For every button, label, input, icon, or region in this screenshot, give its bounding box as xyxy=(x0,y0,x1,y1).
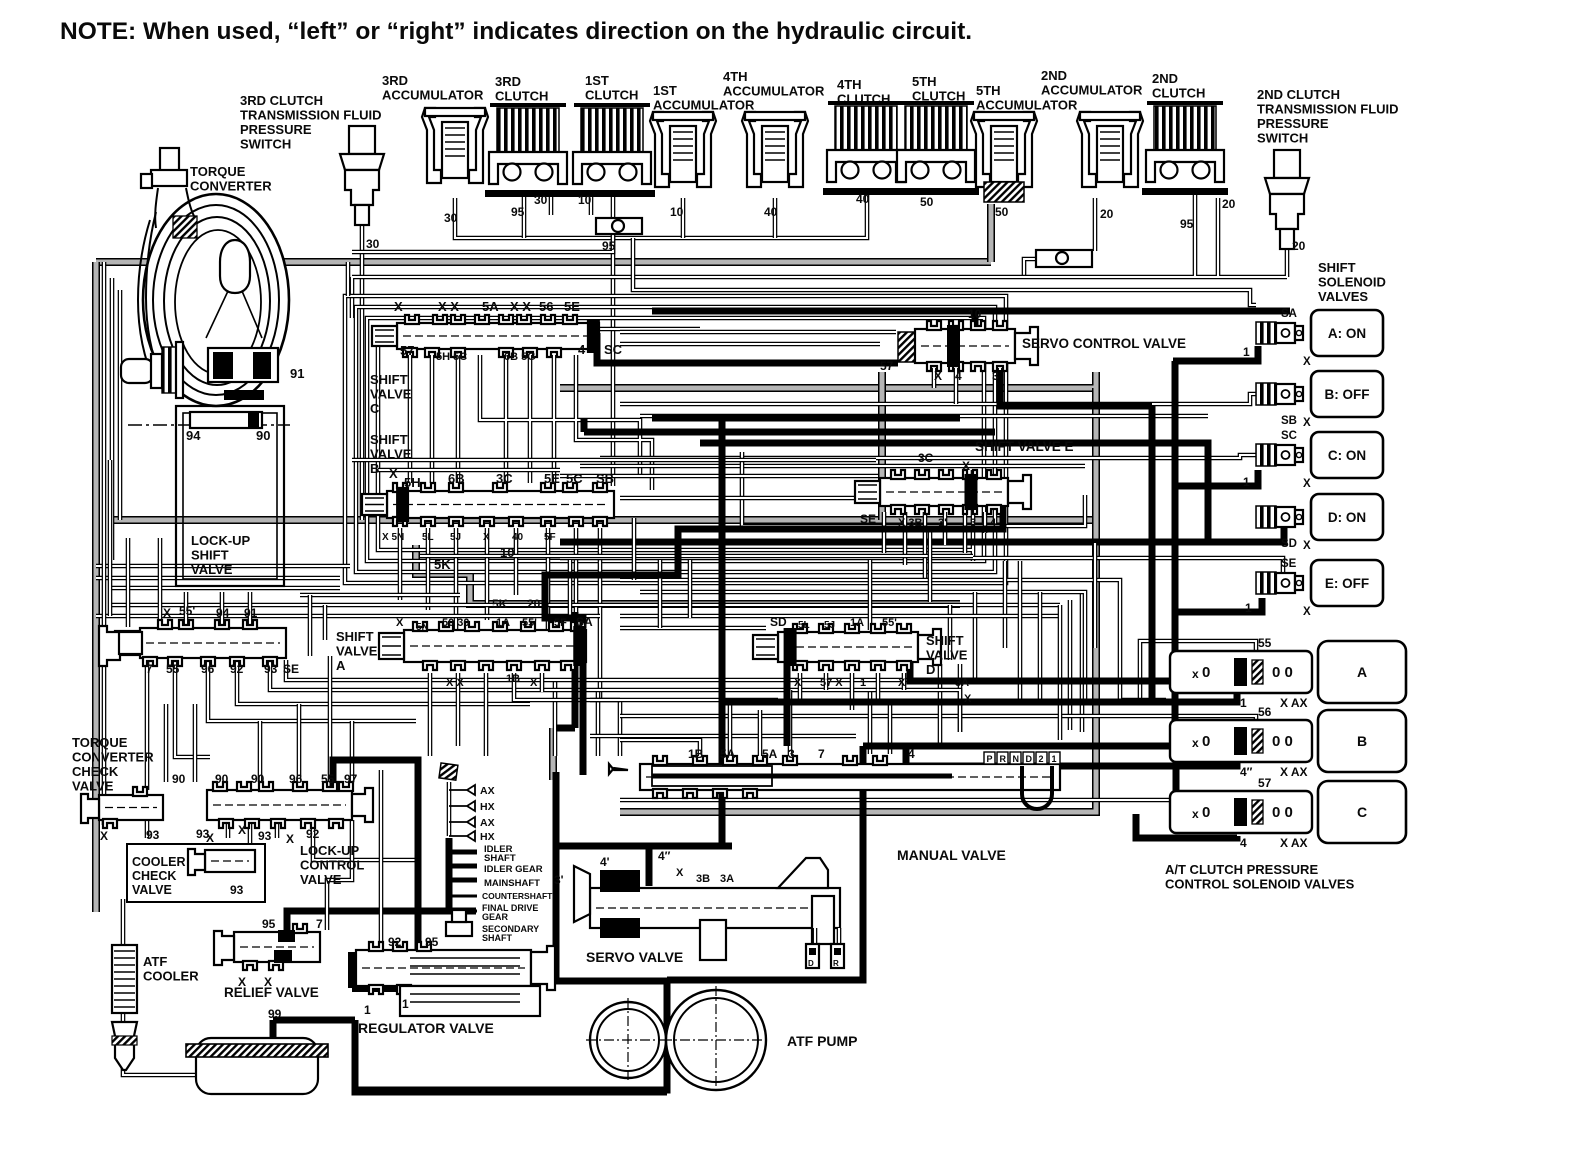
svg-text:95: 95 xyxy=(425,935,439,949)
wire SE thin line xyxy=(560,558,1283,572)
svg-text:3: 3 xyxy=(970,517,976,529)
svg-text:TRANSMISSION FLUID: TRANSMISSION FLUID xyxy=(240,108,382,123)
svg-text:SHIFT: SHIFT xyxy=(370,432,408,447)
svg-text:1A: 1A xyxy=(850,617,864,629)
wire atf cooler to strainer xyxy=(123,1012,196,1075)
svg-text:55': 55' xyxy=(522,617,537,629)
wire 30 from 3rd switch xyxy=(360,208,365,520)
3rd accumulator xyxy=(422,108,488,183)
svg-text:X: X xyxy=(1303,606,1311,618)
svg-text:AX: AX xyxy=(480,785,495,797)
wire loop rect mid xyxy=(356,307,995,572)
2nd clutch xyxy=(1142,103,1228,195)
wire heavy shafts vertical xyxy=(446,838,453,911)
wire regulator thin feed xyxy=(379,770,384,950)
manual valve xyxy=(609,677,1060,863)
svg-text:X: X xyxy=(286,832,294,846)
svg-text:SWITCH: SWITCH xyxy=(240,137,291,152)
svg-text:MAINSHAFT: MAINSHAFT xyxy=(484,878,540,889)
svg-text:94: 94 xyxy=(216,606,230,620)
svg-text:TORQUE: TORQUE xyxy=(72,735,128,750)
svg-text:5A: 5A xyxy=(482,299,499,314)
svg-text:HX: HX xyxy=(480,801,495,813)
svg-text:ACCUMULATOR: ACCUMULATOR xyxy=(653,98,755,113)
svg-text:AX: AX xyxy=(480,817,495,829)
wire heavy SA drop xyxy=(580,650,587,775)
wire lock-up control bottom xyxy=(228,820,420,860)
wire 10 from 1st accumulator xyxy=(681,198,686,238)
wire heavy 99 drop xyxy=(270,1020,277,1040)
svg-text:5K: 5K xyxy=(434,557,451,572)
wire loop rect innermost xyxy=(378,329,973,561)
wire heavy valve E land drop xyxy=(545,488,1003,628)
wire heavy regulator feed L xyxy=(333,760,418,952)
svg-text:1: 1 xyxy=(1052,754,1057,764)
svg-text:3A: 3A xyxy=(720,873,734,885)
svg-text:3C: 3C xyxy=(496,471,513,486)
svg-text:VALVE: VALVE xyxy=(191,562,233,577)
wire mesh h1 xyxy=(620,394,1256,404)
svg-text:20: 20 xyxy=(527,597,541,611)
svg-text:90: 90 xyxy=(256,428,270,443)
A/T clutch pressure control solenoid B xyxy=(1170,705,1406,779)
svg-text:CLUTCH: CLUTCH xyxy=(1152,86,1205,101)
svg-text:2: 2 xyxy=(1039,754,1044,764)
svg-text:X: X xyxy=(389,466,398,481)
svg-text:B: B xyxy=(370,461,379,476)
wire sol A thin xyxy=(633,238,1256,305)
wire heavy y432 xyxy=(584,418,995,432)
wire servo control valve drops xyxy=(934,368,1000,404)
shift solenoid valve SD xyxy=(1256,494,1383,552)
svg-text:SHIFT: SHIFT xyxy=(926,633,964,648)
svg-text:SHIFT: SHIFT xyxy=(370,372,408,387)
wire mesh low h5 xyxy=(310,595,325,656)
svg-text:30: 30 xyxy=(444,211,458,225)
svg-text:MANUAL VALVE: MANUAL VALVE xyxy=(897,847,1006,863)
A/T clutch pressure control solenoid A xyxy=(1170,636,1406,710)
svg-text:90: 90 xyxy=(215,772,229,786)
svg-text:93: 93 xyxy=(258,829,272,843)
svg-text:IDLER GEAR: IDLER GEAR xyxy=(484,864,543,875)
svg-text:3': 3' xyxy=(938,517,947,529)
svg-text:10: 10 xyxy=(578,193,592,207)
wire mesh h7 xyxy=(560,528,1284,542)
svg-text:X AX: X AX xyxy=(1280,836,1308,850)
svg-text:CONTROL: CONTROL xyxy=(300,858,364,873)
svg-text:SERVO VALVE: SERVO VALVE xyxy=(586,949,683,965)
svg-text:X: X xyxy=(100,829,108,843)
svg-text:x: x xyxy=(1192,736,1199,750)
svg-text:3B: 3B xyxy=(696,873,710,885)
wire mesh h4 xyxy=(580,464,1085,469)
svg-text:20: 20 xyxy=(1222,197,1236,211)
wire 40 from 4th accumulator xyxy=(773,198,778,238)
svg-text:A: ON: A: ON xyxy=(1328,326,1366,341)
svg-text:10: 10 xyxy=(500,545,514,560)
svg-text:SA: SA xyxy=(576,615,593,629)
wire heavy manual valve right xyxy=(863,746,1175,795)
svg-text:X: X xyxy=(396,617,404,629)
svg-text:ATF PUMP: ATF PUMP xyxy=(787,1033,858,1049)
svg-text:3RD CLUTCH: 3RD CLUTCH xyxy=(240,93,323,108)
svg-text:X: X xyxy=(1303,417,1311,429)
servo valve xyxy=(554,849,844,968)
2nd accumulator xyxy=(1077,112,1143,187)
svg-text:REGULATOR VALVE: REGULATOR VALVE xyxy=(358,1020,494,1036)
svg-text:4″: 4″ xyxy=(658,849,671,863)
shift solenoid valve SA xyxy=(1256,308,1383,368)
svg-text:92: 92 xyxy=(306,827,320,841)
svg-text:90: 90 xyxy=(172,772,186,786)
svg-text:5TH: 5TH xyxy=(912,74,937,89)
wire 95 from 3rd clutch xyxy=(522,192,527,238)
wire right col verticals xyxy=(1040,592,1060,740)
svg-text:93: 93 xyxy=(146,828,160,842)
svg-text:N: N xyxy=(1013,754,1020,764)
svg-text:SHIFT: SHIFT xyxy=(336,629,374,644)
svg-text:X: X xyxy=(530,677,538,689)
svg-text:SERVO CONTROL VALVE: SERVO CONTROL VALVE xyxy=(1022,336,1186,351)
wire mesh band y330-345 xyxy=(620,332,896,344)
svg-text:95: 95 xyxy=(1180,217,1194,231)
svg-text:0: 0 xyxy=(1202,733,1210,750)
wire right verticals cluster xyxy=(950,561,1005,680)
svg-text:5A: 5A xyxy=(762,747,778,761)
svg-text:SE: SE xyxy=(860,512,876,526)
1st accumulator xyxy=(650,112,716,187)
svg-text:X: X xyxy=(163,606,171,620)
wire mesh h3 xyxy=(600,455,1256,458)
svg-text:55: 55 xyxy=(321,772,335,786)
svg-text:1ST: 1ST xyxy=(585,73,609,88)
shift valve A left assembly xyxy=(99,604,299,676)
svg-text:SHIFT: SHIFT xyxy=(191,548,229,563)
svg-text:5J: 5J xyxy=(450,532,461,543)
wire hatched 5K path xyxy=(416,545,960,604)
svg-text:0: 0 xyxy=(1202,664,1210,681)
wire hatched e-loop xyxy=(560,372,1096,388)
svg-text:A/T CLUTCH PRESSURE: A/T CLUTCH PRESSURE xyxy=(1165,862,1318,877)
wire mid verticals 2 xyxy=(570,518,1020,700)
svg-text:VALVE: VALVE xyxy=(300,872,342,887)
svg-text:6B 5G: 6B 5G xyxy=(504,351,536,363)
svg-text:1: 1 xyxy=(1245,601,1252,615)
svg-text:90: 90 xyxy=(251,772,265,786)
svg-text:COUNTERSHAFT: COUNTERSHAFT xyxy=(482,891,553,901)
svg-text:56: 56 xyxy=(539,299,553,314)
svg-text:HX: HX xyxy=(480,831,495,843)
wire hatched sol column vertical xyxy=(1092,388,1100,732)
svg-text:5H 5C: 5H 5C xyxy=(436,351,467,363)
svg-text:97: 97 xyxy=(344,772,358,786)
svg-text:7: 7 xyxy=(818,747,825,761)
svg-text:99: 99 xyxy=(268,1007,282,1021)
wire heavy bottom bus xyxy=(355,1020,667,1092)
svg-text:LOCK-UP: LOCK-UP xyxy=(300,843,360,858)
3rd clutch xyxy=(485,105,571,197)
svg-text:VALVE: VALVE xyxy=(370,447,412,462)
svg-text:5E: 5E xyxy=(564,299,580,314)
svg-text:20: 20 xyxy=(1100,207,1114,221)
svg-text:TRANSMISSION FLUID: TRANSMISSION FLUID xyxy=(1257,102,1399,117)
wire heavy manual to servo frame xyxy=(667,795,863,980)
wire mesh low h3 xyxy=(640,592,1085,700)
svg-text:SOLENOID: SOLENOID xyxy=(1318,275,1386,290)
wire heavy secondary shaft to relief xyxy=(287,911,476,932)
svg-text:X: X xyxy=(394,299,403,314)
svg-text:NOTE: When used, “left” or “ri: NOTE: When used, “left” or “right” indic… xyxy=(60,18,972,45)
svg-text:1B: 1B xyxy=(688,747,704,761)
svg-text:X: X xyxy=(238,823,246,837)
wire hatched long bus mid xyxy=(110,516,1096,524)
wire heavy SB line xyxy=(652,415,960,422)
svg-text:CONVERTER: CONVERTER xyxy=(72,750,154,765)
svg-text:3RD: 3RD xyxy=(495,74,521,89)
wire heavy A/T solenoid A feed xyxy=(722,693,1237,702)
svg-text:7: 7 xyxy=(146,662,153,676)
svg-text:92: 92 xyxy=(388,935,402,949)
svg-text:GEAR: GEAR xyxy=(482,912,509,922)
svg-text:RELIEF VALVE: RELIEF VALVE xyxy=(224,985,319,1000)
svg-text:56: 56 xyxy=(1258,705,1272,719)
svg-text:93: 93 xyxy=(264,662,278,676)
svg-text:x: x xyxy=(1192,807,1199,821)
svg-text:5E: 5E xyxy=(544,471,560,486)
svg-text:0 0: 0 0 xyxy=(1272,804,1293,821)
svg-text:ACCUMULATOR: ACCUMULATOR xyxy=(1041,83,1143,98)
svg-text:ACCUMULATOR: ACCUMULATOR xyxy=(976,98,1078,113)
svg-text:1: 1 xyxy=(860,677,866,689)
wire hatched bus left vertical xyxy=(92,262,100,912)
wire hatched manual valve underline xyxy=(620,732,1096,812)
wire heavy y443 xyxy=(700,443,1208,539)
svg-text:92: 92 xyxy=(230,662,244,676)
wire 30 stub 3rd clutch xyxy=(549,192,554,215)
svg-text:X: X xyxy=(794,677,802,689)
svg-text:10: 10 xyxy=(670,205,684,219)
svg-text:5L: 5L xyxy=(798,620,810,631)
svg-text:C: ON: C: ON xyxy=(1328,448,1366,463)
svg-text:LOCK-UP: LOCK-UP xyxy=(191,533,251,548)
svg-text:SHAFT: SHAFT xyxy=(482,933,512,943)
svg-text:R: R xyxy=(833,959,839,968)
shift solenoid valve SB xyxy=(1256,371,1383,429)
relief valve xyxy=(214,917,323,1000)
svg-text:2ND: 2ND xyxy=(1152,71,1178,86)
svg-text:5H: 5H xyxy=(404,475,421,490)
svg-text:SWITCH: SWITCH xyxy=(1257,131,1308,146)
wire loop rect inner xyxy=(367,318,984,561)
wire valve B ports down xyxy=(400,528,600,700)
wire heavy feed B xyxy=(1173,346,1258,361)
wire mesh h5 loop around valve E xyxy=(742,452,1085,526)
svg-text:40: 40 xyxy=(764,205,778,219)
svg-text:ATF: ATF xyxy=(143,954,167,969)
wire to A sol region xyxy=(1095,543,1166,700)
svg-text:SHIFT VALVE E: SHIFT VALVE E xyxy=(975,439,1074,454)
wire valve A bottom drops xyxy=(430,673,620,756)
svg-text:1: 1 xyxy=(1240,696,1247,710)
wire heavy SD drop xyxy=(784,655,791,746)
svg-text:2ND: 2ND xyxy=(1041,68,1067,83)
svg-text:57: 57 xyxy=(400,343,414,358)
wire mesh low h4 xyxy=(96,566,350,578)
svg-text:3: 3 xyxy=(788,747,795,761)
svg-text:1ST: 1ST xyxy=(653,83,677,98)
svg-text:5J: 5J xyxy=(824,620,835,631)
svg-text:91: 91 xyxy=(244,606,258,620)
shift valve B xyxy=(362,432,614,572)
svg-text:93: 93 xyxy=(196,827,210,841)
svg-text:5C: 5C xyxy=(566,471,583,486)
lock-up shift valve xyxy=(176,406,284,586)
svg-text:4: 4 xyxy=(955,369,962,383)
inline check valve top right xyxy=(1036,250,1092,267)
svg-text:X AX: X AX xyxy=(1280,765,1308,779)
svg-text:55: 55 xyxy=(1258,636,1272,650)
4th clutch xyxy=(823,103,909,195)
svg-text:VALVE: VALVE xyxy=(72,779,114,794)
wire heavy regulator link xyxy=(273,1017,355,1024)
svg-text:COOLER: COOLER xyxy=(143,969,199,984)
svg-text:3C: 3C xyxy=(918,451,934,465)
svg-text:3': 3' xyxy=(554,873,564,887)
cooler check valve xyxy=(127,831,265,902)
wire hatched servo loop vertical xyxy=(878,372,886,520)
wire manual valve feed verticals xyxy=(870,664,960,754)
svg-text:1A: 1A xyxy=(496,617,510,629)
svg-text:5N: 5N xyxy=(416,622,429,633)
svg-text:A: A xyxy=(1357,664,1367,680)
wire mesh band y588-628 xyxy=(110,588,1060,628)
wire loop rect outer xyxy=(345,296,1006,583)
wire valve E bottom drops xyxy=(884,512,985,580)
svg-text:SA: SA xyxy=(1281,308,1297,320)
svg-text:CLUTCH: CLUTCH xyxy=(495,89,548,104)
svg-text:95: 95 xyxy=(511,205,525,219)
svg-text:X: X xyxy=(934,369,942,383)
wire heavy solenoid feed vertical 1 xyxy=(1149,406,1156,702)
torque converter xyxy=(121,148,290,425)
svg-text:57: 57 xyxy=(880,359,894,373)
svg-text:X X: X X xyxy=(438,299,459,314)
svg-text:VALVE: VALVE xyxy=(132,883,172,897)
wire valve A left assembly drops xyxy=(147,656,1000,790)
svg-text:5TH: 5TH xyxy=(976,83,1001,98)
wire check valves link xyxy=(104,795,147,838)
svg-text:2ND CLUTCH: 2ND CLUTCH xyxy=(1257,87,1340,102)
svg-text:CLUTCH: CLUTCH xyxy=(585,88,638,103)
wire heavy center vertical xyxy=(719,418,726,846)
wire mesh h6 xyxy=(560,474,878,479)
svg-text:SE: SE xyxy=(283,662,299,676)
svg-text:4: 4 xyxy=(908,747,915,761)
svg-text:5K: 5K xyxy=(492,597,508,611)
svg-text:COOLER: COOLER xyxy=(132,855,185,869)
svg-text:X: X xyxy=(964,693,972,705)
svg-text:4″: 4″ xyxy=(1240,765,1253,779)
svg-text:4: 4 xyxy=(990,517,997,529)
svg-text:6B: 6B xyxy=(448,471,465,486)
wire mesh low h1 xyxy=(96,595,1060,616)
svg-text:93: 93 xyxy=(230,883,244,897)
svg-text:X: X xyxy=(676,867,684,879)
wire 10 stub 1st clutch xyxy=(589,192,594,215)
svg-text:96: 96 xyxy=(289,772,303,786)
svg-text:5F: 5F xyxy=(554,617,567,629)
wire mesh low h2 xyxy=(620,580,1120,660)
shift valve C xyxy=(370,299,623,416)
5th clutch xyxy=(893,103,979,195)
svg-text:4TH: 4TH xyxy=(723,69,748,84)
svg-text:50: 50 xyxy=(995,205,1009,219)
wire left long verticals xyxy=(112,262,348,560)
svg-text:CONVERTER: CONVERTER xyxy=(190,179,272,194)
svg-text:40: 40 xyxy=(856,192,870,206)
wire hatched main bus top xyxy=(96,258,991,266)
svg-text:PRESSURE: PRESSURE xyxy=(240,122,312,137)
svg-text:X: X xyxy=(1303,478,1311,490)
svg-text:SD: SD xyxy=(1281,538,1297,550)
svg-text:SC: SC xyxy=(604,342,623,357)
svg-text:0 0: 0 0 xyxy=(1272,733,1293,750)
svg-text:B: B xyxy=(1357,733,1367,749)
svg-text:4TH: 4TH xyxy=(837,77,862,92)
svg-text:4: 4 xyxy=(1240,836,1247,850)
svg-text:P: P xyxy=(987,754,993,764)
wire 10 from 1st clutch long xyxy=(611,192,616,486)
wire hatched 5th accumulator drop xyxy=(987,204,995,262)
wire bus y238 xyxy=(455,192,867,238)
strainer xyxy=(186,1038,328,1094)
svg-text:TORQUE: TORQUE xyxy=(190,164,246,179)
svg-text:X 3B: X 3B xyxy=(898,517,923,529)
wire D loop verticals xyxy=(1070,592,1082,732)
svg-text:7: 7 xyxy=(316,917,323,931)
regulator valve xyxy=(268,910,555,1036)
svg-text:C: C xyxy=(370,401,380,416)
wire lock-up shift valve drops xyxy=(186,592,250,627)
svg-text:10: 10 xyxy=(968,307,982,321)
3rd clutch transmission fluid pressure switch xyxy=(340,126,384,225)
shift solenoid valve SE xyxy=(1256,558,1383,618)
svg-text:SC: SC xyxy=(1281,430,1297,442)
wire heavy servo valve frame xyxy=(355,772,732,1090)
wire heavy SC to servo control valve xyxy=(597,333,898,363)
wire mid verticals cluster xyxy=(555,680,620,756)
svg-text:D: D xyxy=(926,662,935,677)
4th accumulator xyxy=(742,112,808,187)
1st clutch xyxy=(569,105,655,197)
svg-text:5F: 5F xyxy=(544,532,556,543)
wire lock-up control valve top feeds xyxy=(166,656,352,782)
svg-text:D: D xyxy=(808,959,814,968)
wire 55 loop xyxy=(1140,641,1256,698)
svg-text:57 X: 57 X xyxy=(820,677,843,689)
svg-text:VALVE: VALVE xyxy=(926,648,968,663)
5th accumulator xyxy=(971,112,1037,187)
shift valve A xyxy=(336,615,593,689)
wire heavy A/T solenoid B feed xyxy=(906,755,1237,766)
shaft ports list xyxy=(439,763,553,943)
svg-text:50: 50 xyxy=(920,195,934,209)
svg-text:SB: SB xyxy=(1281,415,1297,427)
svg-text:VALVE: VALVE xyxy=(370,387,412,402)
svg-text:3A: 3A xyxy=(955,677,969,689)
svg-text:SHIFT: SHIFT xyxy=(1318,260,1356,275)
svg-text:91: 91 xyxy=(290,366,304,381)
